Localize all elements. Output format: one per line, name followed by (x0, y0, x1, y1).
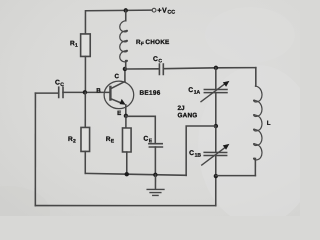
wire emitter lead (125, 105, 127, 116)
wire tank top corner to L (255, 68, 257, 86)
RF CHOKE label (136, 39, 170, 47)
svg-text:1B: 1B (195, 153, 202, 159)
svg-text:B: B (96, 87, 101, 94)
capacitor CC (base coupling) (59, 87, 63, 97)
wire base row left segment (35, 92, 58, 94)
L label (267, 120, 271, 127)
node CE ground junction (153, 173, 157, 177)
R2 label (68, 136, 76, 145)
inductor L (254, 86, 262, 176)
svg-text:1: 1 (75, 43, 78, 49)
wire emitter row to CE (126, 116, 155, 143)
resistor R1 (81, 34, 91, 57)
node tank top junction (214, 66, 218, 70)
pin label B (96, 87, 101, 94)
wire R1 top lead (84, 11, 86, 34)
BE196 value label (140, 90, 161, 97)
wire ground rail (85, 173, 186, 175)
svg-text:V: V (162, 6, 167, 15)
svg-text:C: C (143, 136, 148, 143)
CE label (143, 136, 152, 145)
wire left feedback column (34, 93, 36, 205)
node gang rotor junction (214, 124, 218, 128)
wire L bottom to tank bottom node (216, 175, 256, 177)
resistor RE (122, 128, 131, 152)
wire collector lead (124, 69, 126, 82)
svg-text:E: E (117, 110, 121, 117)
svg-text:C: C (60, 82, 64, 88)
CC label (left) (55, 80, 64, 88)
pin label C (115, 73, 120, 80)
node RE ground junction (125, 172, 129, 176)
svg-text:2J: 2J (177, 105, 185, 112)
capacitor CC (output coupling) (159, 64, 163, 74)
wire R1 bottom lead to base node (84, 56, 86, 92)
svg-text:C: C (115, 73, 120, 80)
wire C1B bottom lead (215, 156, 217, 206)
capacitor C1B (variable) (202, 144, 230, 165)
wire rotor to ground rail (186, 126, 216, 175)
svg-text:GANG: GANG (177, 112, 197, 119)
svg-text:C: C (153, 56, 158, 63)
wire top rail (86, 9, 152, 12)
wire R2 bottom lead (84, 151, 86, 173)
resistor R2 (81, 127, 90, 151)
svg-text:2: 2 (73, 138, 76, 144)
svg-text:BE196: BE196 (140, 90, 161, 97)
capacitor CE (149, 144, 163, 147)
svg-text:F: F (141, 41, 144, 47)
wire RE bottom lead (126, 152, 128, 174)
CC label (top) (153, 56, 162, 64)
svg-text:C: C (188, 87, 193, 94)
svg-text:C: C (158, 58, 162, 64)
wire bottom rail (35, 205, 215, 207)
wire collector row to CC (125, 68, 159, 70)
node tank bottom junction (214, 174, 218, 178)
transistor Q1 BE196 (104, 81, 134, 109)
wire C1A to C1B (215, 93, 217, 126)
RE label (106, 136, 115, 145)
R1 label (70, 40, 78, 49)
2J GANG label (177, 105, 197, 119)
node junction top rail / choke (124, 8, 128, 12)
svg-text:1A: 1A (194, 90, 201, 96)
ground symbol (147, 175, 164, 196)
wire CC to tank top (163, 68, 256, 69)
node base junction (83, 90, 87, 94)
inductor RF choke (120, 10, 128, 69)
node collector junction (123, 67, 127, 71)
Vcc label (157, 6, 175, 16)
svg-text:CHOKE: CHOKE (145, 39, 170, 46)
C1B label (189, 150, 201, 159)
wire RE top lead (125, 116, 127, 128)
wire C1A top lead (215, 68, 217, 89)
wire base row to transistor (63, 91, 110, 93)
svg-text:L: L (267, 120, 271, 127)
wire CE bottom lead (154, 147, 156, 175)
C1A label (188, 87, 200, 96)
svg-text:C: C (189, 150, 194, 157)
node emitter junction (124, 114, 128, 118)
wire C1B top lead (215, 126, 217, 152)
pin label E (117, 110, 121, 117)
svg-text:CC: CC (167, 10, 175, 16)
Vcc terminal (152, 8, 156, 12)
wire R2 top lead (84, 92, 86, 127)
capacitor C1A (variable) (201, 81, 229, 102)
